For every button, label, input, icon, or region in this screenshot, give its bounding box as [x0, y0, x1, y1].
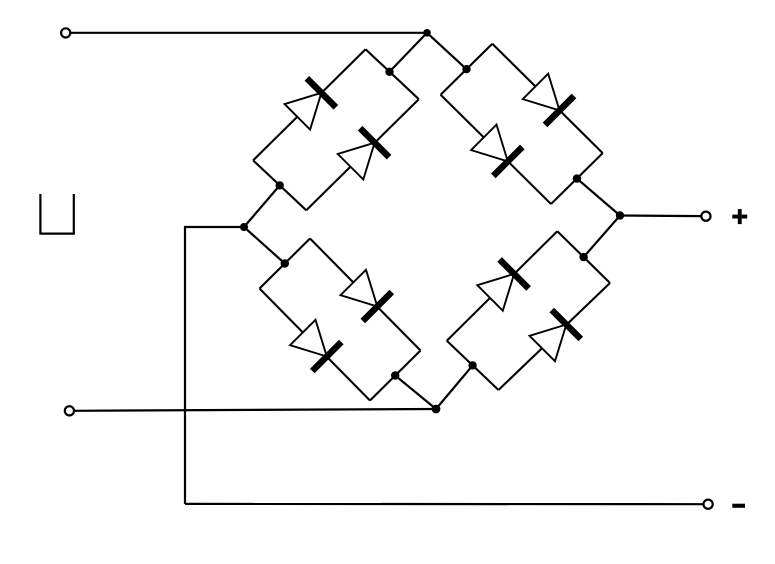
wire: left node to lower-left arm	[244, 227, 285, 264]
junction: lower-left arm bottom tap	[391, 371, 399, 379]
diode D4	[471, 125, 522, 176]
junction: lower-left arm top tap	[281, 259, 289, 267]
junction: upper-right arm bottom tap	[573, 174, 581, 182]
wire: top AC input line	[70, 32, 427, 34]
wire: negative rail (bottom horizontal)	[185, 503, 703, 506]
junction: upper-left arm bottom tap	[276, 181, 284, 189]
diode D1	[285, 78, 336, 129]
wire: lower-left arm loop	[260, 239, 421, 401]
wire: left node to upper-left arm	[244, 185, 280, 227]
node: left (negative) node	[240, 223, 248, 231]
label: minus sign	[732, 504, 745, 508]
diode D2	[338, 128, 389, 179]
wire: upper-right arm loop	[441, 44, 603, 204]
node: top AC node	[423, 29, 431, 37]
node: bottom AC node	[432, 405, 441, 414]
input winding symbol (open square U)	[40, 194, 73, 234]
node: right (positive) node	[616, 211, 624, 219]
wire: top node to upper-left arm	[390, 33, 428, 72]
wire: lower-right arm to right node	[584, 216, 620, 258]
junction: lower-right arm top tap	[579, 253, 587, 261]
wire: upper-left arm loop	[253, 49, 419, 210]
diode D3	[523, 74, 574, 125]
terminal: DC output minus	[704, 500, 713, 509]
wire: negative rail (vertical)	[184, 226, 186, 504]
terminal: AC input 1 (top left)	[61, 28, 70, 37]
wire: lower-right arm loop	[447, 231, 610, 390]
terminal: DC output plus	[701, 212, 710, 221]
wire: top node to upper-right arm	[427, 33, 467, 69]
diode D8	[530, 310, 581, 361]
wire: left node to negative rail (horizontal)	[185, 226, 244, 228]
wire: bottom node to lower-right arm	[436, 365, 473, 409]
terminal: AC input 2 (bottom left)	[65, 406, 74, 415]
wire: bottom AC input line	[74, 409, 436, 411]
junction: upper-right arm top tap	[462, 65, 470, 73]
diode D7	[477, 259, 528, 310]
wire: upper-right arm to right node	[577, 179, 620, 216]
label: plus sign	[732, 209, 747, 224]
diode D6	[290, 320, 341, 371]
junction: lower-right arm bottom tap	[468, 361, 476, 369]
wire: lower-left arm to bottom node	[395, 376, 436, 410]
diode D5	[341, 270, 392, 321]
junction: upper-left arm top tap	[385, 68, 393, 76]
wire: right node to plus terminal	[620, 214, 701, 217]
